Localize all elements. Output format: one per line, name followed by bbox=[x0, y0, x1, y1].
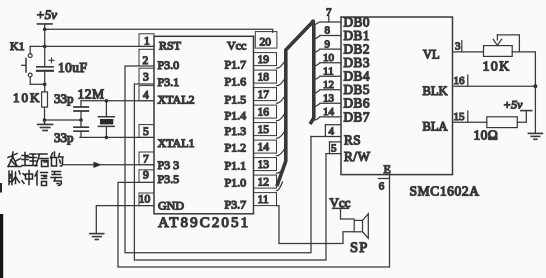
svg-text:10K: 10K bbox=[483, 60, 511, 75]
svg-text:14: 14 bbox=[258, 142, 270, 154]
svg-text:P1.5: P1.5 bbox=[225, 93, 247, 107]
wire GND pin 10 bbox=[96, 206, 154, 233]
wire resistor to ground node bbox=[44, 107, 46, 120]
svg-text:P1.3: P1.3 bbox=[225, 124, 247, 138]
pin 9 box bbox=[139, 170, 154, 183]
ground symbol left bbox=[38, 120, 53, 131]
LCD pin 15 stub BLA bbox=[453, 111, 487, 123]
svg-text:9: 9 bbox=[325, 38, 331, 50]
wire XTAL1 pin 5 bbox=[80, 136, 154, 138]
node ground rail junction bbox=[43, 118, 47, 122]
wire ground rail to 33p midpoint bbox=[45, 119, 82, 121]
svg-text:BLK: BLK bbox=[423, 84, 448, 98]
pin 15 box bbox=[254, 123, 277, 137]
tick pin 16 to bus bbox=[277, 112, 286, 121]
pin 4 box bbox=[139, 86, 154, 102]
DB6 pin 13 bbox=[314, 93, 341, 107]
svg-text:3: 3 bbox=[455, 41, 461, 53]
svg-text:SP: SP bbox=[350, 240, 369, 256]
LCD module SMC1602A body bbox=[341, 17, 453, 175]
svg-text:11: 11 bbox=[258, 194, 269, 206]
svg-text:13: 13 bbox=[323, 93, 335, 105]
svg-text:P1.6: P1.6 bbox=[225, 75, 247, 89]
node +5v junction bbox=[43, 28, 47, 32]
speaker SP bbox=[354, 214, 368, 238]
bus right thick line bbox=[311, 22, 314, 123]
capacitor 33p upper bbox=[74, 101, 88, 120]
wire reset line to RST pin 1 bbox=[30, 45, 154, 47]
svg-text:5: 5 bbox=[143, 126, 149, 138]
wire BLK to ground bbox=[534, 86, 536, 133]
DB1 pin 8 bbox=[314, 25, 341, 39]
svg-text:10: 10 bbox=[139, 194, 151, 206]
svg-text:K1: K1 bbox=[10, 39, 25, 53]
tick pin 14 to bus bbox=[277, 147, 286, 156]
pin 18 box bbox=[254, 70, 277, 84]
node BLK pot junction bbox=[534, 84, 538, 88]
svg-text:10K: 10K bbox=[13, 90, 41, 105]
pin 10 box bbox=[139, 193, 154, 206]
IC U1 AT89C2051 microcontroller body bbox=[154, 36, 254, 214]
svg-text:1: 1 bbox=[144, 35, 150, 47]
svg-text:14: 14 bbox=[323, 106, 335, 118]
svg-text:P1.0: P1.0 bbox=[225, 176, 247, 190]
tick pin 17 to bus bbox=[277, 95, 286, 104]
svg-text:33p: 33p bbox=[54, 91, 74, 106]
svg-text:P3 3: P3 3 bbox=[158, 158, 180, 172]
svg-text:P3.7: P3.7 bbox=[225, 198, 247, 212]
svg-text:+5v: +5v bbox=[36, 7, 57, 22]
pin 14 box bbox=[254, 140, 277, 154]
svg-text:P3.0: P3.0 bbox=[158, 58, 180, 72]
svg-text:VL: VL bbox=[423, 48, 440, 62]
wire 10 ohm to +5v bbox=[517, 111, 526, 123]
svg-text:13: 13 bbox=[258, 159, 270, 171]
svg-text:DB7: DB7 bbox=[344, 109, 370, 124]
node crystal bottom on XTAL1 line bbox=[105, 136, 109, 140]
ground symbol right bbox=[528, 133, 542, 139]
label pulse input line2 (fake CJK strokes) bbox=[9, 171, 62, 186]
svg-text:P1.4: P1.4 bbox=[225, 109, 247, 123]
LCD RS pin 4 bbox=[311, 125, 341, 138]
wire P3.1 pin 3 to LCD R/W bbox=[134, 84, 326, 260]
wire P3.0 pin 2 to LCD RS bbox=[125, 66, 311, 253]
tick pin 13 to bus bbox=[277, 165, 286, 174]
svg-text:15: 15 bbox=[258, 124, 270, 136]
pin 2 box bbox=[139, 49, 154, 67]
arrow pulse input bbox=[94, 162, 102, 168]
svg-text:12: 12 bbox=[258, 177, 270, 189]
resistor 10 ohm bbox=[487, 117, 518, 128]
pin 7 box bbox=[139, 152, 154, 165]
svg-text:XTAL2: XTAL2 bbox=[158, 93, 195, 107]
pin 17 box bbox=[254, 88, 277, 102]
chip left labels bbox=[158, 39, 195, 213]
pin 16 box bbox=[254, 105, 277, 119]
wire +5v down to reset node bbox=[44, 29, 46, 46]
svg-text:R/W: R/W bbox=[344, 149, 370, 164]
svg-text:4: 4 bbox=[329, 126, 335, 138]
svg-text:+5v: +5v bbox=[503, 98, 523, 112]
node cap bottom junction bbox=[43, 83, 47, 87]
pin 12 box bbox=[254, 175, 277, 189]
pin 20 box bbox=[255, 32, 277, 49]
LCD E pin 6 bbox=[378, 162, 390, 192]
capacitor 10uF electrolytic bbox=[37, 46, 54, 92]
svg-text:18: 18 bbox=[258, 72, 270, 84]
svg-text:P3.1: P3.1 bbox=[158, 75, 180, 89]
svg-text:8: 8 bbox=[325, 25, 331, 37]
chip right labels bbox=[225, 39, 247, 212]
tick pin 19 to bus bbox=[277, 60, 286, 69]
DB7 pin 14 bbox=[314, 106, 341, 120]
pin 13 box bbox=[254, 158, 277, 172]
DB5 pin 12 bbox=[314, 79, 341, 93]
svg-text:10Ω: 10Ω bbox=[474, 128, 499, 143]
svg-text:10: 10 bbox=[323, 52, 335, 64]
svg-text:10uF: 10uF bbox=[58, 60, 87, 75]
LCD R/W pin 5 bbox=[326, 142, 341, 155]
svg-text:GND: GND bbox=[158, 198, 184, 212]
node crystal top on XTAL2 line bbox=[105, 99, 109, 103]
svg-text:33p: 33p bbox=[54, 130, 74, 145]
wire P3.5 pin 9 to LCD E bbox=[118, 175, 390, 267]
svg-text:12: 12 bbox=[323, 79, 334, 91]
LCD pin 16 stub BLK bbox=[453, 75, 536, 87]
DB3 pin 10 bbox=[314, 52, 341, 66]
svg-text:SMC1602A: SMC1602A bbox=[410, 184, 480, 199]
wire XTAL2 pin 4 bbox=[81, 100, 154, 102]
DB4 pin 11 bbox=[314, 65, 341, 79]
svg-text:17: 17 bbox=[258, 89, 270, 101]
svg-text:E: E bbox=[384, 162, 391, 176]
node 33p midpoint bbox=[79, 118, 83, 122]
svg-text:4: 4 bbox=[143, 90, 149, 102]
switch K1 pushbutton bbox=[22, 46, 45, 84]
pin 11 box bbox=[254, 193, 277, 207]
LCD right labels bbox=[423, 48, 448, 134]
svg-text:12M: 12M bbox=[78, 87, 105, 102]
svg-text:9: 9 bbox=[143, 170, 149, 182]
wire +5v rail to Vcc pin 20 bbox=[45, 29, 273, 32]
potentiometer 10K bbox=[484, 35, 536, 86]
svg-text:6: 6 bbox=[379, 181, 385, 193]
svg-text:3: 3 bbox=[143, 72, 149, 84]
+5v symbol right bbox=[503, 98, 532, 112]
svg-text:7: 7 bbox=[326, 6, 332, 18]
svg-text:Vcc: Vcc bbox=[227, 39, 246, 53]
svg-text:7: 7 bbox=[143, 153, 149, 165]
pin 5 box bbox=[139, 125, 154, 138]
wire P3.7 pin 11 to speaker bbox=[277, 206, 355, 244]
Vcc symbol speaker bbox=[330, 195, 355, 219]
pin 19 box bbox=[254, 53, 277, 67]
svg-text:5: 5 bbox=[331, 143, 337, 155]
capacitor 33p lower bbox=[74, 120, 88, 137]
ground symbol chip bbox=[90, 234, 104, 240]
svg-text:RST: RST bbox=[159, 39, 182, 53]
svg-text:P3.5: P3.5 bbox=[158, 172, 180, 186]
pin 3 box bbox=[139, 68, 154, 84]
+5v power symbol bbox=[36, 7, 57, 29]
svg-text:P1.7: P1.7 bbox=[225, 58, 247, 72]
LCD left labels bbox=[344, 14, 371, 164]
svg-text:11: 11 bbox=[323, 65, 334, 77]
DB2 pin 9 bbox=[314, 38, 341, 52]
svg-text:20: 20 bbox=[260, 36, 272, 48]
tick pin 18 to bus bbox=[277, 77, 286, 86]
pin 1 box bbox=[139, 34, 154, 48]
resistor 10K reset bbox=[42, 92, 48, 107]
bus left thick line bbox=[278, 22, 314, 185]
LCD pin 3 stub bbox=[453, 41, 484, 53]
svg-text:BLA: BLA bbox=[423, 120, 448, 134]
svg-text:RS: RS bbox=[344, 133, 361, 148]
edge artifact bottom left bbox=[0, 214, 3, 278]
tick pin 12 to bus bbox=[277, 182, 283, 191]
label pulse input line1 (fake CJK strokes) bbox=[8, 152, 63, 167]
svg-text:16: 16 bbox=[258, 107, 270, 119]
svg-text:P1.2: P1.2 bbox=[225, 141, 247, 155]
DB0 pin 7 bbox=[315, 6, 341, 24]
svg-text:19: 19 bbox=[258, 54, 270, 66]
svg-text:P1.1: P1.1 bbox=[225, 159, 247, 173]
svg-text:AT89C2051: AT89C2051 bbox=[158, 215, 250, 231]
tick pin 15 to bus bbox=[277, 130, 286, 139]
wire P3.3 input with arrow bbox=[63, 164, 154, 166]
svg-text:XTAL1: XTAL1 bbox=[158, 136, 195, 150]
crystal 12M bbox=[98, 101, 114, 138]
node reset line junction bbox=[43, 45, 47, 49]
svg-text:16: 16 bbox=[454, 75, 466, 87]
svg-text:2: 2 bbox=[143, 55, 149, 67]
svg-text:15: 15 bbox=[454, 111, 466, 123]
